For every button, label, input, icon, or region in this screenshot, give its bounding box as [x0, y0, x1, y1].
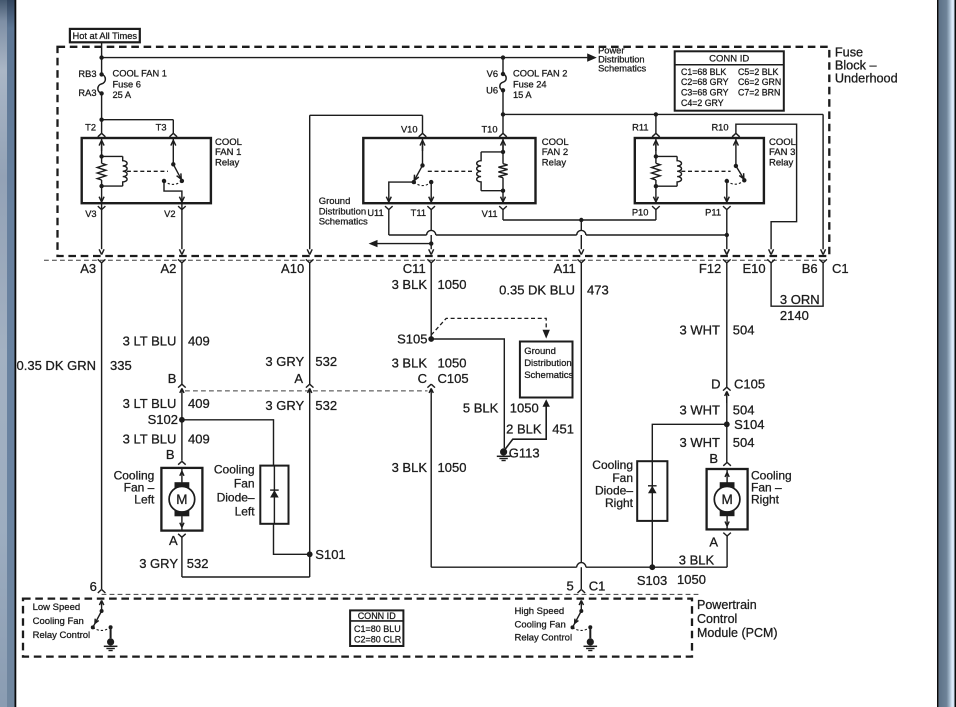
svg-text:Schematics: Schematics — [524, 370, 573, 381]
svg-text:U11: U11 — [367, 208, 383, 218]
svg-text:P11: P11 — [705, 207, 721, 217]
svg-text:Module (PCM): Module (PCM) — [697, 626, 778, 640]
svg-text:Right: Right — [751, 493, 780, 507]
svg-text:M: M — [721, 492, 732, 507]
svg-text:S103: S103 — [637, 573, 667, 588]
svg-text:C2=68 GRY: C2=68 GRY — [681, 77, 729, 87]
svg-text:25 A: 25 A — [113, 90, 132, 100]
svg-text:U6: U6 — [486, 85, 498, 95]
svg-text:1050: 1050 — [677, 572, 706, 587]
svg-text:504: 504 — [733, 435, 755, 450]
svg-text:T10: T10 — [481, 125, 497, 135]
svg-text:B: B — [709, 451, 718, 466]
svg-text:3 ORN: 3 ORN — [780, 292, 820, 307]
svg-text:0.35 DK GRN: 0.35 DK GRN — [17, 358, 96, 373]
svg-text:V2: V2 — [164, 209, 175, 219]
svg-text:Relay Control: Relay Control — [33, 630, 91, 641]
svg-text:3 WHT: 3 WHT — [680, 323, 721, 338]
svg-text:532: 532 — [315, 398, 337, 413]
svg-text:Underhood: Underhood — [835, 71, 898, 85]
svg-text:Fuse 24: Fuse 24 — [513, 79, 547, 89]
svg-text:C3=68 GRY: C3=68 GRY — [681, 88, 729, 98]
svg-text:D: D — [711, 377, 720, 392]
svg-text:504: 504 — [733, 323, 755, 338]
svg-text:Hot at All Times: Hot at All Times — [73, 31, 138, 41]
svg-text:A2: A2 — [160, 261, 176, 276]
svg-text:V10: V10 — [401, 125, 418, 135]
svg-text:V3: V3 — [85, 209, 96, 219]
svg-text:3 WHT: 3 WHT — [680, 435, 721, 450]
svg-text:532: 532 — [315, 354, 337, 369]
svg-text:1050: 1050 — [438, 277, 467, 292]
svg-text:3 GRY: 3 GRY — [139, 556, 178, 571]
svg-text:R11: R11 — [632, 123, 648, 133]
svg-text:C105: C105 — [438, 371, 469, 386]
svg-text:504: 504 — [733, 403, 755, 418]
svg-text:C1=68 BLK: C1=68 BLK — [681, 67, 726, 77]
svg-text:B6: B6 — [802, 261, 818, 276]
svg-text:Diode–: Diode– — [217, 491, 255, 505]
svg-text:M: M — [176, 492, 187, 507]
svg-text:CONN ID: CONN ID — [709, 54, 749, 65]
svg-text:Cooling: Cooling — [214, 462, 255, 476]
svg-text:RA3: RA3 — [78, 88, 96, 98]
svg-text:C4=2 GRY: C4=2 GRY — [681, 98, 724, 108]
svg-text:2140: 2140 — [780, 308, 809, 323]
svg-text:3 BLK: 3 BLK — [392, 277, 428, 292]
svg-text:High Speed: High Speed — [515, 606, 565, 617]
svg-text:T11: T11 — [411, 208, 426, 218]
svg-text:3 LT BLU: 3 LT BLU — [123, 334, 177, 349]
svg-text:C5=2 BLK: C5=2 BLK — [738, 67, 778, 77]
svg-text:A3: A3 — [80, 261, 96, 276]
svg-text:Left: Left — [134, 493, 155, 507]
svg-text:A: A — [169, 533, 178, 548]
svg-text:451: 451 — [552, 422, 574, 437]
svg-text:R10: R10 — [711, 123, 728, 133]
svg-text:A11: A11 — [554, 261, 576, 276]
svg-text:Schematics: Schematics — [598, 64, 646, 74]
svg-text:Ground: Ground — [524, 346, 556, 357]
svg-text:Relay Control: Relay Control — [515, 633, 573, 644]
svg-text:A: A — [709, 535, 718, 550]
svg-text:Powertrain: Powertrain — [697, 598, 757, 612]
svg-text:C2=80 CLR: C2=80 CLR — [354, 635, 402, 645]
svg-text:S102: S102 — [148, 412, 178, 427]
svg-text:Cooling Fan: Cooling Fan — [515, 620, 566, 631]
svg-text:5: 5 — [566, 578, 573, 593]
svg-text:5 BLK: 5 BLK — [463, 400, 499, 415]
svg-text:3 LT BLU: 3 LT BLU — [123, 396, 177, 411]
svg-text:S105: S105 — [397, 332, 427, 347]
svg-text:Fuse 6: Fuse 6 — [113, 79, 141, 89]
svg-text:1050: 1050 — [438, 355, 467, 370]
svg-text:2 BLK: 2 BLK — [506, 422, 542, 437]
svg-text:G113: G113 — [509, 446, 540, 461]
svg-text:3 BLK: 3 BLK — [679, 552, 715, 567]
svg-text:0.35 DK BLU: 0.35 DK BLU — [499, 283, 575, 298]
svg-text:Block –: Block – — [835, 58, 878, 72]
svg-text:C7=2 BRN: C7=2 BRN — [738, 88, 780, 98]
svg-text:3 GRY: 3 GRY — [265, 398, 304, 413]
svg-text:409: 409 — [188, 396, 210, 411]
svg-text:Distribution: Distribution — [319, 206, 367, 217]
svg-text:V11: V11 — [482, 209, 498, 219]
svg-text:A: A — [294, 371, 303, 386]
svg-text:C11: C11 — [403, 261, 426, 276]
svg-text:409: 409 — [188, 432, 210, 447]
svg-text:E10: E10 — [742, 261, 765, 276]
svg-text:C: C — [418, 371, 427, 386]
svg-text:473: 473 — [587, 283, 609, 298]
svg-text:A10: A10 — [281, 261, 304, 276]
svg-text:Relay: Relay — [769, 157, 794, 168]
svg-text:S104: S104 — [734, 417, 764, 432]
svg-text:S101: S101 — [315, 547, 345, 562]
svg-text:C6=2 GRN: C6=2 GRN — [738, 77, 781, 87]
svg-text:C105: C105 — [734, 377, 765, 392]
svg-text:Left: Left — [235, 504, 256, 518]
svg-text:COOL FAN 2: COOL FAN 2 — [513, 69, 567, 79]
svg-text:B: B — [166, 447, 175, 462]
svg-text:3 GRY: 3 GRY — [265, 354, 304, 369]
svg-text:Fuse: Fuse — [835, 45, 863, 59]
svg-text:C1: C1 — [589, 578, 606, 593]
svg-text:Cooling Fan: Cooling Fan — [33, 616, 84, 627]
svg-text:Distribution: Distribution — [524, 358, 572, 369]
svg-text:C1=80 BLU: C1=80 BLU — [354, 624, 401, 634]
svg-text:3 BLK: 3 BLK — [392, 355, 428, 370]
svg-text:P10: P10 — [632, 207, 649, 217]
svg-text:V6: V6 — [487, 69, 498, 79]
svg-text:T2: T2 — [85, 123, 96, 133]
svg-text:6: 6 — [90, 579, 97, 594]
svg-text:3 WHT: 3 WHT — [680, 403, 721, 418]
svg-text:RB3: RB3 — [78, 69, 96, 79]
svg-text:409: 409 — [188, 334, 210, 349]
svg-text:Schematics: Schematics — [319, 217, 368, 228]
svg-text:F12: F12 — [699, 261, 721, 276]
svg-text:Relay: Relay — [542, 157, 567, 168]
svg-text:T3: T3 — [156, 123, 167, 133]
svg-text:Low Speed: Low Speed — [33, 602, 81, 613]
svg-text:3 BLK: 3 BLK — [392, 460, 428, 475]
svg-text:1050: 1050 — [510, 400, 539, 415]
svg-text:CONN ID: CONN ID — [358, 611, 397, 621]
svg-text:Relay: Relay — [215, 157, 240, 168]
svg-text:B: B — [168, 371, 177, 386]
svg-text:Control: Control — [697, 612, 737, 626]
svg-text:COOL FAN 1: COOL FAN 1 — [113, 69, 167, 79]
svg-text:335: 335 — [110, 358, 132, 373]
svg-text:3 LT BLU: 3 LT BLU — [123, 432, 177, 447]
svg-text:Right: Right — [605, 496, 634, 510]
svg-text:1050: 1050 — [438, 460, 467, 475]
svg-text:Fan: Fan — [234, 476, 255, 490]
svg-text:15 A: 15 A — [513, 90, 532, 100]
svg-text:Ground: Ground — [319, 196, 351, 207]
svg-text:C1: C1 — [832, 261, 849, 276]
svg-text:532: 532 — [187, 556, 209, 571]
